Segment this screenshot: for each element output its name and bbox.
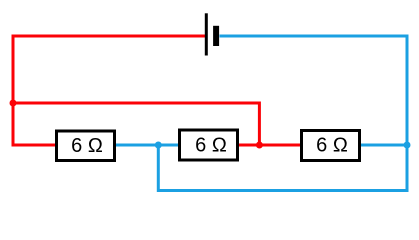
battery positive plate — [205, 13, 208, 55]
resistor R3 box — [302, 131, 360, 161]
battery negative plate — [213, 26, 219, 46]
wire blue: R3 right terminal to right vertical — [360, 144, 407, 147]
node B junction dot — [256, 142, 263, 149]
svg-text:6 Ω: 6 Ω — [71, 135, 103, 157]
resistor R1 box — [57, 131, 115, 161]
wire red: R2 right terminal to R3 left terminal — [239, 144, 301, 147]
wire red: battery positive to left vertical down to R1 — [13, 36, 205, 145]
node D junction dot — [404, 142, 411, 149]
wire blue: R1 right terminal to R2 left terminal — [115, 144, 179, 147]
node A junction dot — [10, 100, 17, 107]
node C junction dot — [155, 142, 162, 149]
wire blue: battery negative, right vertical, bottom return to node C — [158, 36, 407, 191]
wire red: middle branch from node A to node B — [13, 103, 259, 145]
resistor R2 box — [180, 130, 238, 160]
svg-text:6 Ω: 6 Ω — [195, 134, 227, 156]
svg-text:6 Ω: 6 Ω — [316, 135, 348, 157]
